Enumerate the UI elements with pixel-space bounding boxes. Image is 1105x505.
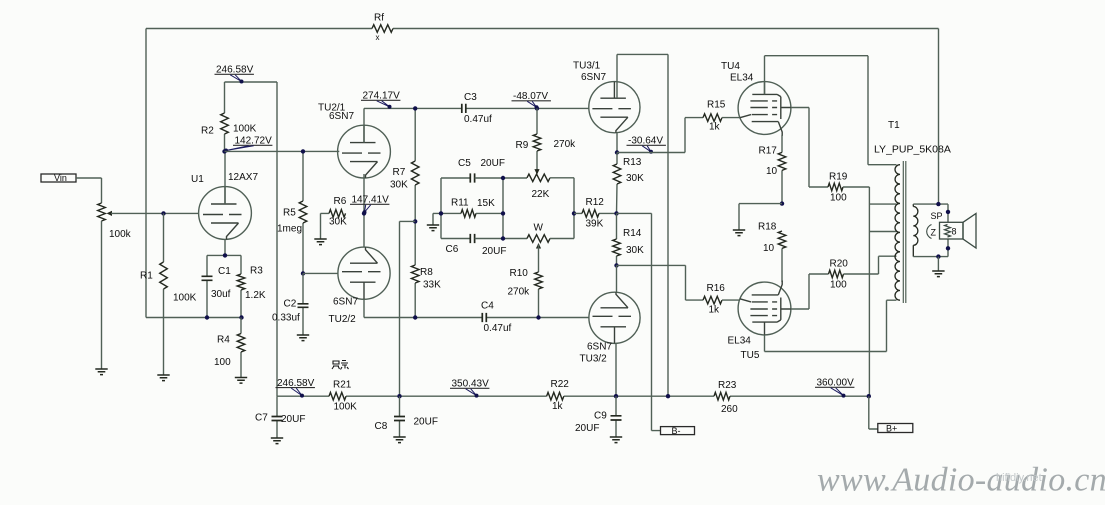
svg-text:22K: 22K [532, 189, 550, 200]
wire TU2/1 plate to 274.17V line [364, 108, 589, 142]
wire node to B- terminal [617, 213, 661, 430]
svg-text:T1: T1 [888, 120, 900, 131]
node TU2/2 grid [301, 271, 305, 275]
transistor TU2/1 6SN7 triode [318, 103, 390, 179]
wire U1 cathode network [207, 239, 241, 255]
capacitor C5 20UF [458, 158, 505, 183]
svg-text:B-: B- [672, 426, 681, 436]
wire grid TU2/2 [303, 272, 338, 274]
wire TU5 plate to transformer bottom [765, 300, 897, 351]
svg-text:R22: R22 [551, 379, 570, 390]
wire 142.72V to TU2/1 grid [225, 150, 340, 152]
wire secondary top [913, 204, 948, 222]
svg-text:8: 8 [952, 227, 957, 237]
svg-text:0.47uf: 0.47uf [464, 114, 492, 125]
svg-text:R11: R11 [451, 198, 469, 209]
wire feedback from secondary [938, 29, 940, 205]
wire B+ center tap [869, 231, 896, 233]
node right vertical R12 [572, 211, 576, 215]
svg-text:15K: 15K [477, 198, 495, 209]
svg-text:20UF: 20UF [482, 246, 506, 257]
node R8 bottom [413, 315, 417, 319]
wire TU3/2 cathode [616, 265, 618, 292]
node R10 bottom [536, 315, 540, 319]
node mid top [501, 176, 505, 180]
svg-text:100: 100 [830, 193, 847, 204]
svg-text:R16: R16 [707, 283, 726, 294]
ground C8 [393, 437, 405, 443]
svg-text:6SN7: 6SN7 [581, 72, 606, 83]
svg-text:30uf: 30uf [211, 289, 231, 300]
resistor R20 100 [829, 259, 849, 291]
resistor R11 15K [451, 198, 495, 218]
wire 246.58V top rail [225, 81, 278, 83]
svg-text:260: 260 [721, 404, 738, 415]
svg-text:0.33uf: 0.33uf [272, 313, 300, 324]
transformer core [903, 161, 906, 303]
node R3 bottom [239, 315, 243, 319]
resistor R23 260 [714, 380, 738, 415]
svg-text:R6: R6 [334, 196, 347, 207]
transistor TU2/2 6SN7 triode [329, 247, 391, 325]
resistor R4 100 [214, 318, 245, 378]
svg-text:1.2K: 1.2K [245, 290, 266, 301]
wire R20 to UL tap [844, 256, 897, 274]
svg-text:39K: 39K [586, 219, 604, 230]
node secondary ground [936, 254, 940, 258]
svg-text:C2: C2 [284, 299, 297, 310]
svg-text:C8: C8 [375, 421, 388, 432]
capacitor C8 20UF [375, 396, 438, 437]
svg-text:100K: 100K [173, 293, 197, 304]
svg-text:100K: 100K [334, 402, 358, 413]
svg-text:100: 100 [214, 357, 231, 368]
node R7-R8 junction [413, 219, 417, 223]
ground R4 [235, 378, 247, 384]
resistor R14 30K [613, 213, 644, 265]
svg-text:R17: R17 [759, 146, 778, 157]
svg-text:12AX7: 12AX7 [228, 172, 258, 183]
transistor TU5 EL34 pentode [728, 281, 791, 362]
terminal Vin [41, 173, 76, 183]
svg-text:R7: R7 [393, 167, 406, 178]
node R13 R14 R12 [614, 211, 618, 215]
svg-text:R2: R2 [201, 126, 214, 137]
ground R1 [157, 375, 169, 381]
svg-text:1k: 1k [709, 305, 721, 316]
node mid bottom [501, 236, 505, 240]
node C8 [397, 394, 401, 398]
svg-text:EL34: EL34 [730, 73, 754, 84]
node mid center [501, 211, 505, 215]
svg-text:Vin: Vin [54, 173, 67, 183]
svg-text:C9: C9 [594, 411, 607, 422]
node B+ junction [867, 394, 871, 398]
resistor R2 100K [201, 82, 257, 151]
node speaker top [946, 210, 950, 214]
resistor R13 30K [613, 153, 644, 214]
svg-text:R3: R3 [250, 266, 263, 277]
transistor TU3/1 6SN7 triode [573, 61, 640, 133]
svg-text:R5: R5 [283, 208, 296, 219]
svg-text:20UF: 20UF [281, 414, 305, 425]
svg-text:R19: R19 [829, 172, 848, 183]
svg-text:6SN7: 6SN7 [587, 342, 612, 353]
wire network left vertical [441, 178, 470, 239]
resistor R6 30K [321, 196, 348, 239]
svg-text:1meg: 1meg [277, 224, 302, 235]
potentiometer W [527, 223, 550, 243]
svg-text:30K: 30K [626, 173, 644, 184]
svg-text:Z: Z [931, 228, 937, 238]
wire U1 plate to 142.72V node [224, 151, 226, 204]
resistor R1 100K [140, 213, 197, 375]
resistor Rf [372, 13, 393, 43]
svg-text:C3: C3 [464, 92, 477, 103]
ground C7 [271, 438, 283, 444]
svg-text:EL34: EL34 [728, 336, 752, 347]
wire TU2/1 cathode [363, 174, 365, 247]
wire wiper to U1 grid [111, 212, 199, 214]
svg-text:TU3/2: TU3/2 [580, 354, 608, 365]
resistor R22 1k [547, 379, 570, 412]
svg-text:100K: 100K [233, 124, 257, 135]
node C1 bottom [205, 315, 209, 319]
capacitor C3 0.47uf [462, 92, 492, 125]
wire R7R8 junction to C8 rail node [400, 221, 416, 396]
wire TU5 screen to R20 [791, 274, 829, 309]
svg-text:Rf: Rf [374, 13, 384, 24]
svg-text:30K: 30K [626, 245, 644, 256]
note chinese characters [332, 361, 349, 370]
svg-text:C6: C6 [446, 244, 459, 255]
node TU3/1 plate rail [666, 394, 670, 398]
wire network right vertical [550, 178, 574, 239]
wire cathode node to ground [739, 204, 782, 230]
node secondary feedback [936, 202, 940, 206]
wire TU3/1 plate to rail [617, 54, 668, 396]
potentiometer 100k volume [98, 203, 132, 240]
ground R6 [314, 239, 326, 245]
node -48.07V [535, 106, 539, 110]
svg-text:R18: R18 [758, 222, 777, 233]
ground C9 [610, 437, 622, 443]
resistor R9 270k [516, 108, 577, 173]
wire R15 to TU4 grid [722, 117, 740, 119]
svg-text:R23: R23 [718, 380, 737, 391]
wire TU3/1 cathode [616, 133, 618, 153]
transformer T1 secondary winding [913, 207, 918, 246]
wire R14 node to R16 [617, 265, 704, 300]
resistor R21 100K [329, 380, 357, 413]
capacitor C6 20UF [446, 234, 507, 257]
resistor R16 1k [703, 283, 725, 316]
node speaker bottom [946, 246, 950, 250]
svg-text:1k: 1k [709, 122, 721, 133]
wire pot bottom to ground [101, 221, 103, 369]
wire secondary bottom [913, 239, 948, 257]
resistor R3 1.2K [237, 255, 266, 317]
svg-text:270k: 270k [508, 287, 531, 298]
svg-text:TU3/1: TU3/1 [573, 61, 601, 72]
terminal B+ [878, 423, 913, 433]
resistor R10 270k [508, 245, 543, 318]
wire bottom supply rail [277, 395, 869, 397]
terminal B- [661, 426, 695, 436]
speaker SP 8 ohm [927, 211, 976, 248]
node R7 top [413, 106, 417, 110]
svg-text:30K: 30K [329, 217, 347, 228]
svg-text:U1: U1 [191, 174, 204, 185]
wire feedback top rail [146, 29, 939, 318]
svg-text:C4: C4 [481, 301, 494, 312]
wire TU4 screen to R19 [791, 108, 828, 188]
node U1 plate [222, 149, 226, 153]
svg-text:x: x [376, 33, 380, 42]
wiper arrow W [536, 243, 541, 249]
svg-text:20UF: 20UF [481, 158, 505, 169]
svg-text:6SN7: 6SN7 [329, 111, 354, 122]
svg-text:R20: R20 [830, 259, 849, 270]
resistor R17 10 [759, 135, 786, 204]
svg-text:R13: R13 [623, 157, 642, 168]
transistor TU3/2 6SN7 triode [580, 292, 641, 364]
svg-text:R9: R9 [516, 140, 529, 151]
transistor TU4 EL34 pentode [721, 61, 791, 136]
node TU3/1 cathode [615, 150, 619, 154]
svg-text:100k: 100k [109, 229, 132, 240]
node U1 cathode [223, 253, 227, 257]
op-amp U1 12AX7 triode [191, 172, 258, 239]
svg-text:R8: R8 [420, 267, 433, 278]
ground output cathodes [733, 230, 745, 236]
wire to B+ terminal [869, 396, 878, 429]
svg-text:R4: R4 [217, 335, 230, 346]
svg-text:100: 100 [830, 280, 847, 291]
capacitor C1 30uf [202, 255, 232, 317]
svg-text:SP: SP [931, 211, 943, 221]
svg-text:LY_PUP_5K08A: LY_PUP_5K08A [874, 144, 951, 156]
node network left [439, 211, 443, 215]
node wiper-R1 junction [161, 211, 165, 215]
svg-text:C1: C1 [218, 266, 231, 277]
svg-text:hifidiy.net: hifidiy.net [996, 472, 1042, 484]
svg-text:R12: R12 [586, 197, 605, 208]
ground pot [95, 369, 107, 375]
wire TU4 plate to transformer top [765, 56, 897, 165]
node C9 [614, 394, 618, 398]
wire feedback to cathode net y317 [146, 317, 241, 319]
svg-text:20UF: 20UF [575, 423, 599, 434]
wiper arrow 22K [534, 169, 539, 175]
wire B+ supply drop x277 [276, 82, 278, 396]
svg-text:TU5: TU5 [741, 350, 760, 361]
wire cathode to R15 [617, 118, 703, 153]
svg-text:33K: 33K [423, 280, 441, 291]
svg-text:C5: C5 [458, 158, 471, 169]
svg-text:10: 10 [766, 166, 778, 177]
svg-text:6SN7: 6SN7 [333, 297, 358, 308]
wire R19 to UL tap [843, 187, 897, 396]
node cathode resistors [780, 201, 784, 205]
potentiometer 22K [527, 174, 550, 200]
ground secondary [932, 271, 944, 277]
svg-text:10: 10 [763, 243, 775, 254]
resistor R12 39K [574, 197, 617, 230]
svg-text:C7: C7 [255, 413, 268, 424]
svg-text:R21: R21 [333, 380, 352, 391]
wire R16 to TU5 grid [722, 299, 740, 301]
wire to ground [937, 257, 939, 271]
wire TU3/2 plate to rail [615, 343, 617, 396]
node R5 top [301, 149, 305, 153]
svg-text:0.47uf: 0.47uf [484, 323, 512, 334]
svg-text:270k: 270k [554, 139, 577, 150]
svg-text:R10: R10 [510, 268, 529, 279]
svg-text:www.Audio-audio.cn: www.Audio-audio.cn [817, 462, 1105, 499]
wire network middle vertical [475, 178, 527, 239]
svg-text:30K: 30K [390, 180, 408, 191]
wire TU2/2 plate to C4 line [364, 299, 589, 317]
svg-text:R14: R14 [623, 228, 642, 239]
transformer T1 primary winding [895, 165, 900, 301]
svg-text:TU4: TU4 [721, 61, 740, 72]
resistor R18 10 [758, 222, 786, 283]
node R14 bottom [614, 263, 618, 267]
capacitor C9 20UF [575, 396, 622, 437]
svg-text:B+: B+ [886, 423, 897, 433]
resistor R7 30K [390, 108, 419, 221]
svg-text:20UF: 20UF [414, 417, 438, 428]
svg-text:W: W [534, 223, 544, 234]
capacitor C2 0.33uf [272, 273, 309, 335]
wire Vin to volume pot [76, 178, 102, 203]
svg-text:1k: 1k [552, 401, 564, 412]
svg-text:R15: R15 [707, 100, 726, 111]
capacitor C4 0.47uf [481, 301, 512, 335]
ground network [433, 213, 441, 225]
svg-text:R1: R1 [140, 271, 153, 282]
resistor R19 100 [828, 172, 848, 204]
node TU2/1 cathode 147.41V [362, 211, 366, 215]
resistor R5 1meg [277, 151, 307, 273]
capacitor C7 20UF [255, 396, 305, 438]
resistor R8 33K [411, 221, 441, 317]
ground C2 [297, 335, 309, 341]
resistor R15 1k [703, 100, 726, 133]
svg-text:TU2/2: TU2/2 [329, 314, 357, 325]
